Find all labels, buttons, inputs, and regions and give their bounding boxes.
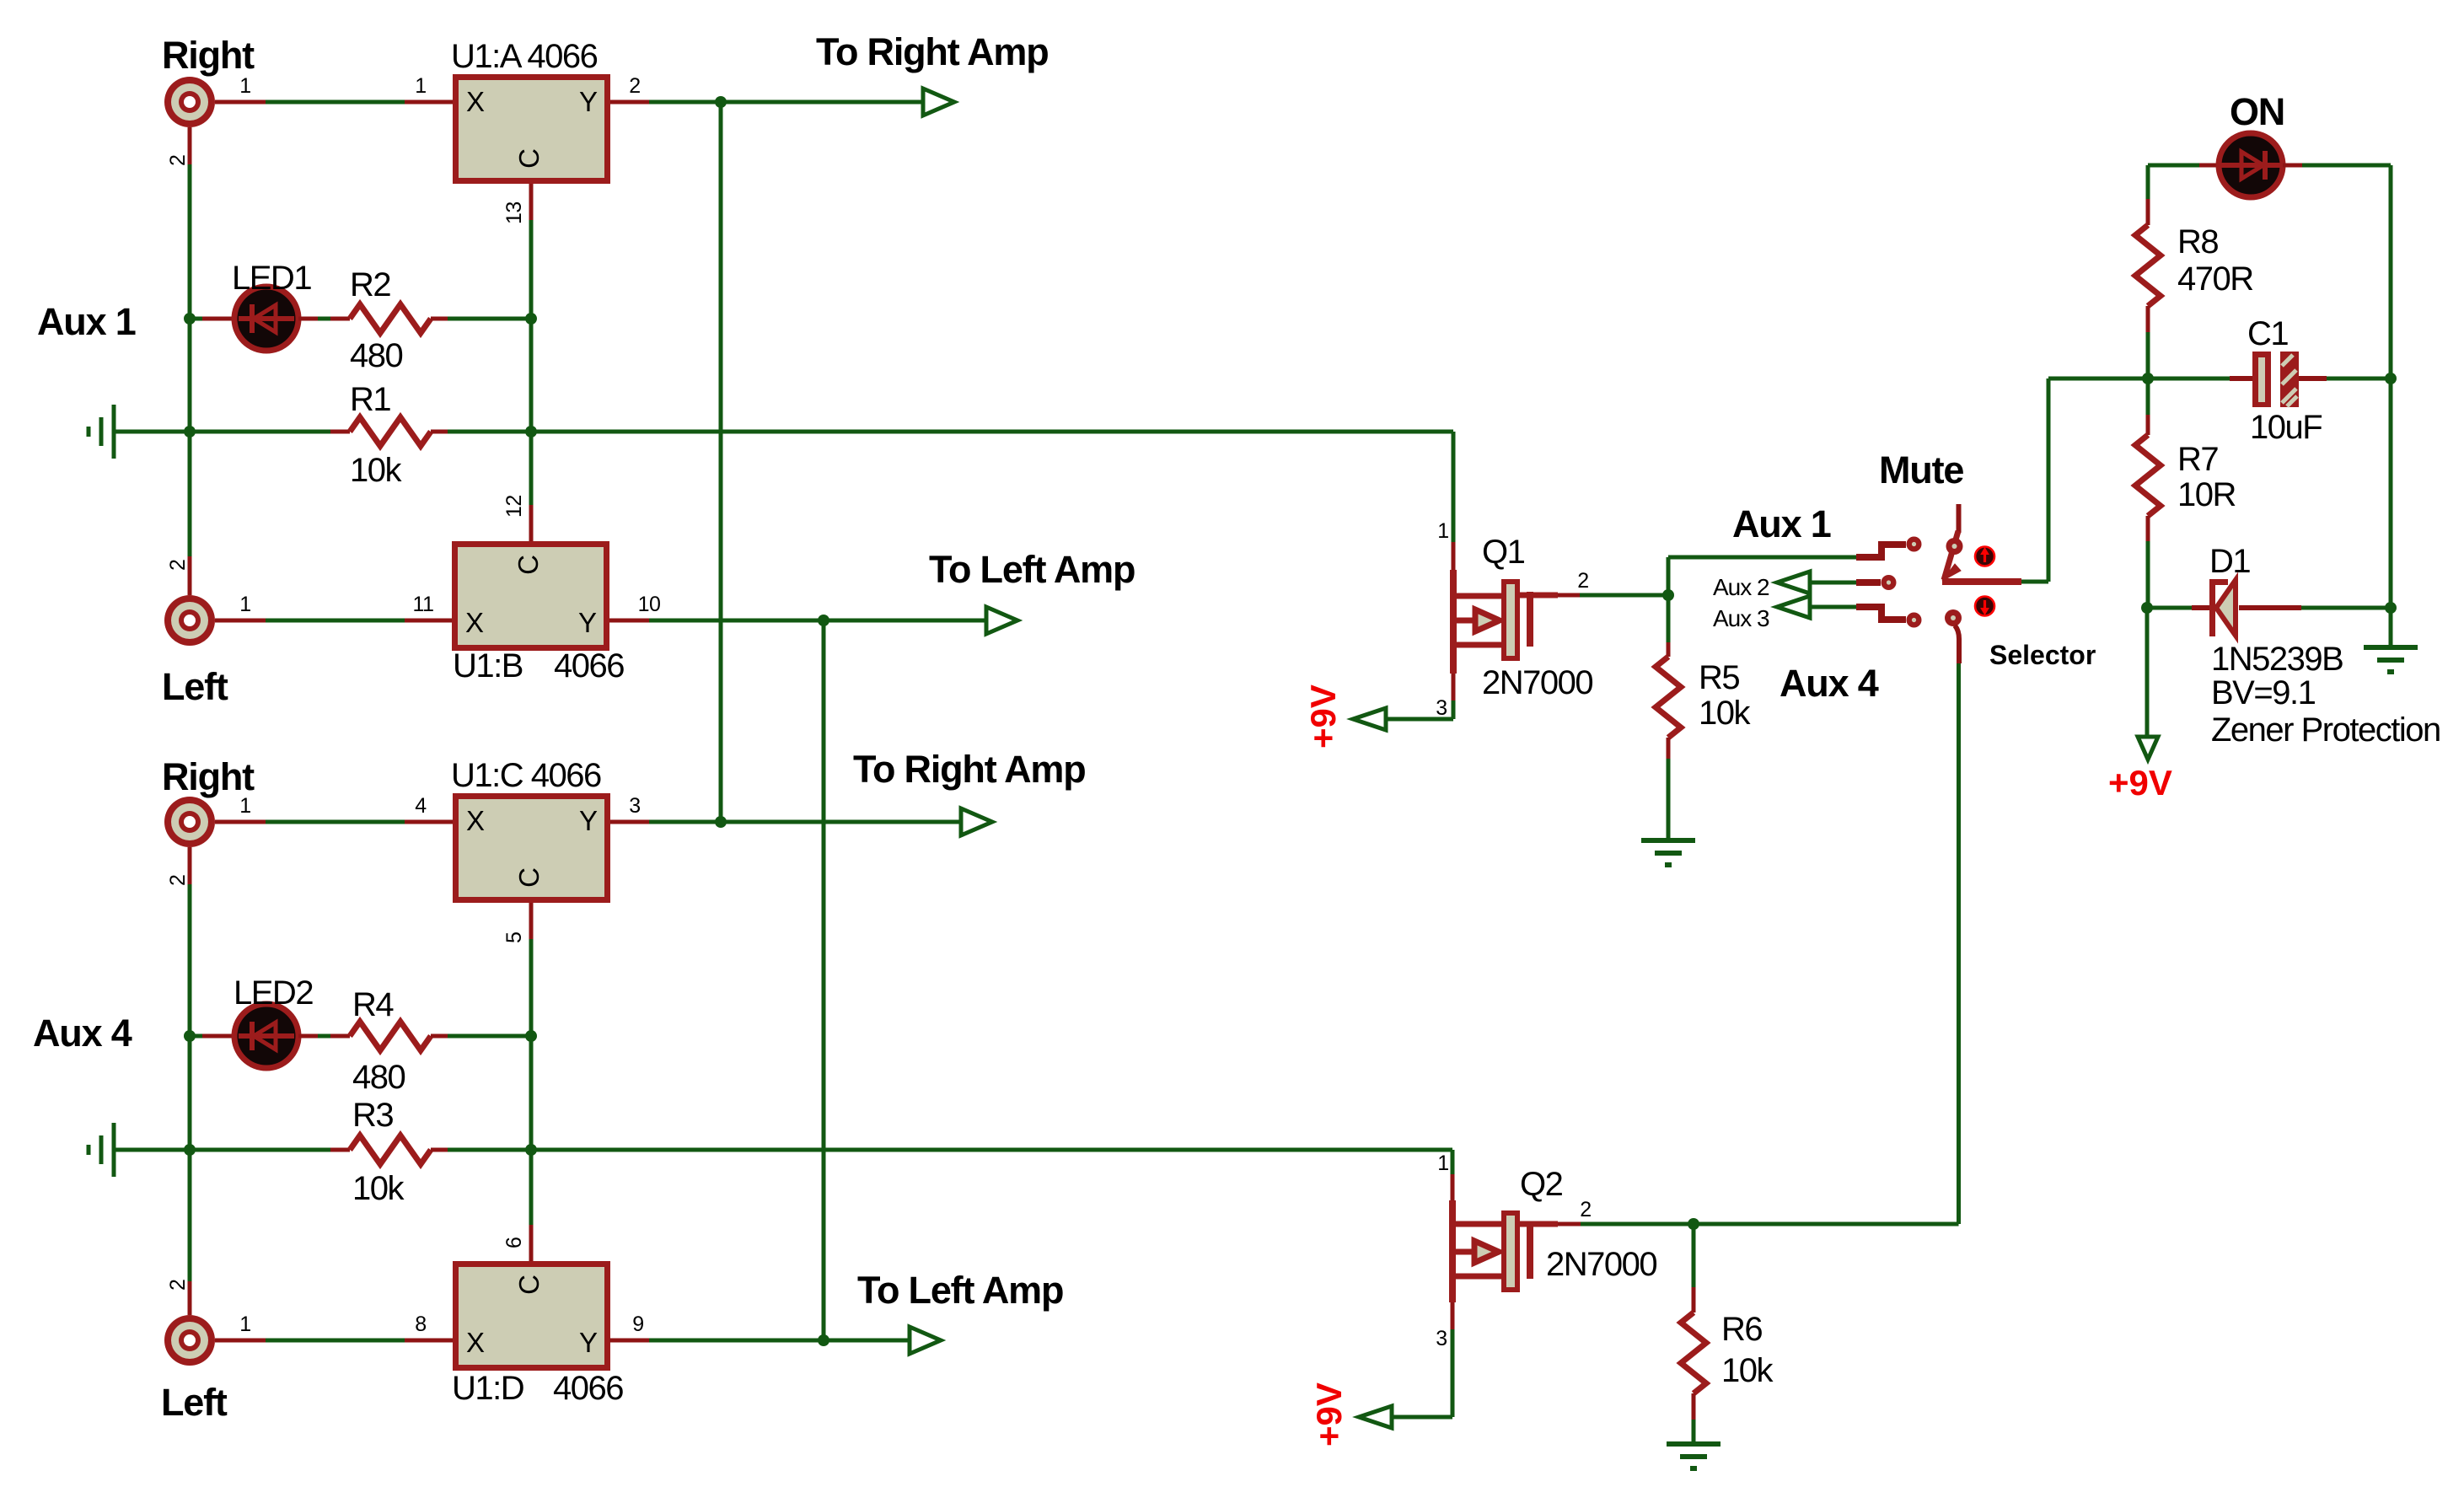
pin 5 stub U1:C C — [529, 903, 534, 939]
svg-text:11: 11 — [413, 593, 434, 616]
svg-text:To Left Amp: To Left Amp — [929, 548, 1135, 591]
svg-text:4066: 4066 — [553, 1370, 623, 1407]
selector lower contact — [1945, 609, 1962, 626]
svg-text:470R: 470R — [2177, 260, 2253, 298]
wire Aux1 node to LED1 — [190, 317, 202, 321]
junction R7/D1 left — [2141, 602, 2153, 614]
svg-text:U1:D: U1:D — [452, 1370, 523, 1407]
junction node left-amp bottom — [818, 1334, 829, 1346]
svg-text:10k: 10k — [350, 452, 402, 489]
wire node to selector net — [1694, 1222, 1959, 1227]
wire to right amp arrow 2 — [721, 820, 961, 824]
resistor R2 — [350, 304, 431, 333]
wire right rail to ground — [2389, 608, 2393, 646]
wire ON LED to right rail — [2283, 164, 2302, 168]
wire Aux2 arrow to pad — [1810, 581, 1856, 585]
wire J3 to U1:C X — [215, 820, 266, 824]
input arrow Aux 3 — [1777, 596, 1810, 618]
svg-text:10uF: 10uF — [2250, 409, 2322, 446]
IC U1:D 4066 bilateral switch — [456, 1264, 608, 1368]
wire GND2 row to R3 — [190, 1148, 330, 1152]
wire to left amp arrow — [824, 619, 986, 623]
wire junction down to R3 row — [529, 1036, 534, 1150]
wire J1 to U1:A X — [215, 100, 266, 105]
svg-text:Left: Left — [161, 1381, 228, 1424]
svg-text:Aux 1: Aux 1 — [37, 300, 136, 343]
resistor R5 — [1656, 595, 1681, 840]
svg-text:To Right Amp: To Right Amp — [853, 748, 1086, 791]
svg-text:Zener Protection: Zener Protection — [2211, 711, 2440, 749]
bus wire right-amp vertical — [719, 102, 723, 822]
svg-text:4: 4 — [415, 794, 427, 818]
wire J3 pin2 down to Aux4 node — [188, 847, 192, 884]
wire Aux4 node to LED2 — [190, 1034, 202, 1039]
power +9V arrow down — [2138, 737, 2158, 760]
wire left to ON LED — [2148, 164, 2199, 168]
junction Aux4 node — [184, 1030, 196, 1042]
junction R3 row left — [184, 1144, 196, 1156]
wire gate net down to Q2 — [1451, 1150, 1455, 1174]
svg-text:2N7000: 2N7000 — [1546, 1246, 1656, 1283]
transistor Q2 2N7000 — [1452, 1174, 1581, 1329]
wire right rail to D1 row — [2389, 378, 2393, 608]
input arrow Aux 2 — [1777, 572, 1810, 593]
pin 6 stub U1:D C — [529, 1225, 534, 1261]
svg-text:To Left Amp: To Left Amp — [857, 1269, 1063, 1312]
svg-text:Aux 4: Aux 4 — [1780, 662, 1879, 705]
junction Q1 drain / R5 — [1662, 589, 1674, 601]
svg-text:3: 3 — [1436, 1327, 1447, 1350]
wire to left amp arrow 2 — [824, 1339, 910, 1343]
wire node up and to Mute switch — [1667, 557, 1671, 595]
svg-text:2: 2 — [1580, 1198, 1591, 1221]
wire R4 to junction — [431, 1034, 448, 1039]
junction node left-amp top — [818, 615, 829, 626]
svg-text:Y: Y — [578, 607, 597, 638]
wire Q1 drain to R5 node — [1580, 593, 1668, 598]
wire U1:A Y pin2 to junction — [610, 100, 649, 105]
output arrow To Right Amp (top) — [923, 89, 954, 115]
svg-text:3: 3 — [1436, 696, 1447, 720]
svg-text:Q2: Q2 — [1520, 1166, 1563, 1203]
diode D1 zener 1N5239B — [2147, 579, 2391, 636]
resistor R1 — [350, 417, 431, 446]
svg-text:C1: C1 — [2247, 315, 2288, 352]
svg-text:X: X — [466, 805, 485, 836]
resistor R7 — [2135, 378, 2161, 608]
wire LED2 to R4 — [298, 1034, 318, 1039]
svg-text:U1:C 4066: U1:C 4066 — [451, 757, 601, 794]
svg-text:R6: R6 — [1721, 1311, 1762, 1348]
ground GND5 (R6) — [1667, 1441, 1721, 1447]
LED LED1 — [234, 287, 298, 351]
output arrow To Left Amp (bottom) — [910, 1327, 941, 1354]
ground GND4 (right rail) — [2364, 645, 2418, 650]
svg-text:10k: 10k — [1721, 1352, 1774, 1389]
selector pivot contact — [1946, 538, 1963, 555]
svg-text:+9V: +9V — [2108, 763, 2172, 802]
selector lever — [1944, 531, 1958, 580]
IC U1:B 4066 bilateral switch — [455, 545, 607, 648]
svg-text:Y: Y — [579, 805, 598, 836]
svg-text:X: X — [466, 86, 485, 117]
wire R1 to junction — [431, 430, 448, 434]
wire GND1 to node — [115, 430, 190, 434]
svg-text:Y: Y — [579, 86, 598, 117]
capacitor C1 10uF — [2148, 352, 2391, 407]
wire J4 to U1:D X — [215, 1339, 266, 1343]
svg-text:4066: 4066 — [554, 647, 624, 684]
pin 13 stub U1:A C — [529, 184, 534, 220]
svg-text:1: 1 — [415, 74, 426, 98]
junction node right-amp top — [715, 96, 727, 108]
resistor R3 — [350, 1135, 431, 1164]
svg-text:2N7000: 2N7000 — [1482, 664, 1592, 701]
ground GND3 (R5) — [1641, 838, 1695, 843]
svg-text:1: 1 — [239, 794, 250, 818]
selector contact trace Aux1 — [1856, 545, 1906, 557]
wire Q2 drain to R6 node — [1581, 1222, 1694, 1227]
svg-text:Q1: Q1 — [1482, 534, 1525, 571]
svg-text:R4: R4 — [352, 986, 394, 1023]
selector common stem — [1957, 504, 1962, 533]
wire U1:B Y pin10 to junction — [609, 619, 649, 623]
resistor R8 — [2135, 165, 2161, 378]
svg-text:LED1: LED1 — [232, 260, 311, 297]
svg-text:2: 2 — [166, 875, 190, 886]
wire GND2 to node — [115, 1148, 190, 1152]
svg-text:R3: R3 — [352, 1097, 393, 1134]
wire to right amp arrow — [721, 100, 923, 105]
junction D1 right — [2385, 602, 2397, 614]
output arrow To Right Amp (bottom) — [961, 808, 992, 835]
svg-text:R7: R7 — [2177, 441, 2218, 478]
svg-text:2: 2 — [629, 74, 640, 98]
junction R1 row left — [184, 426, 196, 437]
junction C1 right — [2385, 373, 2397, 384]
junction Aux1 node — [184, 313, 196, 325]
svg-text:13: 13 — [502, 201, 526, 224]
power +9V arrow (Q2) — [1359, 1406, 1392, 1428]
svg-text:U1:B: U1:B — [453, 647, 523, 684]
wire J1 pin2 down to Aux1 node — [188, 127, 192, 164]
svg-text:C: C — [513, 867, 545, 888]
wire R3 to junction — [431, 1148, 448, 1152]
wire R7 node down to +9V — [2145, 608, 2150, 738]
wire gate net down to Q1 — [1452, 432, 1456, 542]
svg-text:Aux 2: Aux 2 — [1713, 574, 1769, 600]
junction R3/pin6 — [525, 1144, 537, 1156]
wire Aux3 arrow to pad — [1810, 605, 1856, 609]
svg-text:3: 3 — [629, 794, 640, 818]
svg-text:Left: Left — [162, 665, 228, 708]
svg-text:C: C — [513, 148, 545, 169]
pin 12 stub U1:B C — [529, 505, 534, 541]
svg-text:Mute: Mute — [1879, 448, 1963, 491]
junction R8/C1 left — [2142, 373, 2154, 384]
svg-text:2: 2 — [166, 560, 190, 571]
junction R2/pin13 — [525, 313, 537, 325]
LED ON indicator — [2219, 133, 2283, 197]
svg-text:9: 9 — [632, 1312, 643, 1336]
svg-text:6: 6 — [502, 1237, 526, 1248]
svg-text:1: 1 — [1437, 1151, 1448, 1175]
junction node right-amp bottom — [715, 816, 727, 828]
svg-text:R8: R8 — [2177, 223, 2218, 260]
svg-text:480: 480 — [350, 337, 402, 374]
svg-text:10R: 10R — [2177, 476, 2236, 513]
wire R2 to C-pin junction — [431, 317, 448, 321]
svg-text:R2: R2 — [350, 266, 390, 303]
svg-text:LED2: LED2 — [234, 974, 313, 1012]
connector J3 Right (Aux4) — [164, 797, 215, 847]
ground GND2 (Aux4) — [112, 1123, 116, 1177]
svg-text:12: 12 — [502, 495, 526, 518]
bus wire left-amp vertical — [822, 620, 826, 1340]
svg-text:C: C — [513, 1275, 545, 1295]
ground GND1 (Aux1) — [112, 405, 116, 459]
svg-text:X: X — [466, 1327, 485, 1358]
wire Aux1 node down to Left connector — [188, 319, 192, 432]
svg-text:Y: Y — [579, 1327, 598, 1358]
wire control net to Q2 gate — [531, 1148, 1452, 1152]
svg-text:Aux 4: Aux 4 — [33, 1012, 132, 1055]
svg-text:5: 5 — [502, 932, 526, 943]
wire control net to Q1 gate — [531, 430, 1453, 434]
connector J4 Left (Aux4) — [164, 1315, 215, 1366]
wire right rail down — [2389, 165, 2393, 378]
svg-text:D1: D1 — [2209, 543, 2250, 580]
svg-text:+9V: +9V — [1303, 684, 1343, 749]
svg-text:8: 8 — [415, 1312, 426, 1336]
selector pad Aux2 — [1882, 575, 1897, 590]
wire Q2 source to +9V arrow — [1451, 1329, 1455, 1417]
svg-text:Aux 3: Aux 3 — [1713, 605, 1769, 631]
svg-text:R1: R1 — [350, 381, 390, 418]
output arrow To Left Amp (top) — [986, 607, 1017, 634]
svg-text:1: 1 — [239, 593, 250, 616]
svg-text:10: 10 — [638, 593, 661, 616]
svg-text:Selector: Selector — [1989, 640, 2096, 670]
svg-text:To Right Amp: To Right Amp — [816, 30, 1049, 73]
transistor Q1 2N7000 — [1453, 542, 1580, 701]
rotary indicator down — [1975, 597, 1994, 616]
svg-text:ON: ON — [2230, 90, 2284, 133]
LED LED2 — [234, 1004, 298, 1068]
junction R1/pin12 — [525, 426, 537, 437]
svg-text:2: 2 — [166, 155, 190, 166]
svg-text:R5: R5 — [1699, 659, 1739, 696]
svg-text:U1:A 4066: U1:A 4066 — [451, 38, 598, 75]
wire GND row to R1 — [190, 430, 330, 434]
svg-text:Right: Right — [162, 34, 255, 77]
IC U1:C 4066 bilateral switch — [456, 797, 608, 900]
connector J1 Right (Aux1) — [164, 77, 215, 127]
wire U1:D Y pin9 to junction — [609, 1339, 649, 1343]
wire Aux4 node down to Left connector 2 — [188, 1036, 192, 1150]
selector common wire — [1942, 578, 2021, 585]
power +9V arrow (Q1) — [1353, 708, 1386, 730]
svg-text:480: 480 — [352, 1059, 405, 1096]
wire selector common up to C1 row — [2047, 378, 2051, 582]
selector pad Aux1 — [1907, 537, 1922, 552]
junction Q2 drain / R6 — [1688, 1218, 1699, 1230]
svg-text:2: 2 — [166, 1280, 190, 1291]
junction R4/pin5 — [525, 1030, 537, 1042]
svg-text:BV=9.1: BV=9.1 — [2211, 674, 2316, 711]
IC U1:A 4066 bilateral switch — [456, 78, 608, 181]
svg-text:1: 1 — [1437, 519, 1448, 543]
svg-text:+9V: +9V — [1309, 1382, 1349, 1447]
svg-text:1: 1 — [239, 74, 250, 98]
resistor R4 — [350, 1022, 431, 1050]
svg-text:C: C — [513, 555, 544, 575]
svg-text:10k: 10k — [1699, 695, 1751, 732]
selector lower contact tail — [1955, 625, 1959, 663]
svg-text:2: 2 — [1577, 569, 1588, 593]
svg-text:Aux 1: Aux 1 — [1732, 502, 1831, 545]
wire selector to Q2 drain net — [1957, 663, 1961, 1224]
svg-text:10k: 10k — [352, 1170, 405, 1207]
svg-text:Right: Right — [162, 755, 255, 798]
wire Q1 source to +9V arrow — [1452, 701, 1456, 719]
rotary indicator up — [1975, 547, 1994, 566]
svg-text:1: 1 — [239, 1312, 250, 1336]
svg-text:X: X — [465, 607, 484, 638]
svg-text:1N5239B: 1N5239B — [2211, 641, 2343, 678]
wire U1:C Y pin3 to junction — [610, 820, 649, 824]
wire LED1 to R2 — [298, 317, 318, 321]
selector pad Aux3 — [1907, 613, 1922, 628]
wire J2 to U1:B X — [215, 619, 266, 623]
resistor R6 — [1681, 1224, 1706, 1443]
wire junction down to R1 row — [529, 319, 534, 432]
connector J2 Left (Aux1) — [164, 595, 215, 646]
